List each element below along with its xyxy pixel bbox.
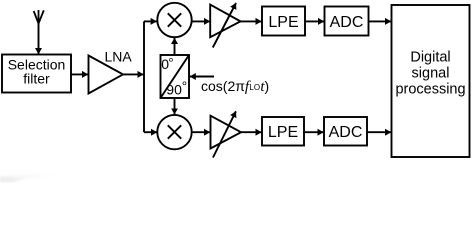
wire LO into phase shifter: [190, 76, 214, 78]
svg-text:filter: filter: [23, 71, 50, 87]
svg-text:signal: signal: [412, 66, 450, 82]
svg-text:LPE: LPE: [268, 124, 298, 141]
wire phase shifter to mixer M1: [174, 38, 176, 55]
antenna: [34, 10, 44, 24]
wire split vertical branch: [143, 21, 145, 132]
svg-text:ADC: ADC: [329, 124, 363, 141]
box LPE1: [262, 7, 305, 36]
wire VGA1 to LPE1: [241, 20, 262, 22]
mixer M1: [157, 3, 191, 37]
phase shifter 0/90: [161, 55, 190, 98]
box ADC1: [325, 7, 369, 36]
wire LNA to split node: [123, 73, 144, 75]
wire LPE2 to ADC2: [304, 131, 324, 133]
wire LPE1 to ADC1: [305, 20, 324, 22]
wire mixer M2 to VGA2: [192, 131, 210, 133]
wire branch to mixer M2: [144, 131, 157, 133]
wire VGA2 to LPE2: [241, 131, 262, 133]
svg-text:LNA: LNA: [105, 49, 133, 65]
wire filter to LNA: [71, 73, 88, 75]
amplifier VGA1: [210, 3, 240, 48]
svg-text:°: °: [182, 79, 187, 94]
wire ADC2 to DSP: [367, 131, 391, 133]
box LPE2: [262, 117, 304, 146]
svg-text:processing: processing: [395, 82, 465, 98]
wire branch to mixer M1: [144, 20, 157, 22]
svg-text:90: 90: [166, 82, 182, 98]
box ADC2: [324, 117, 367, 146]
wire phase shifter to mixer M2: [174, 98, 176, 114]
svg-text:LPE: LPE: [268, 14, 298, 31]
mixer M2: [157, 115, 191, 149]
amplifier LNA: [89, 56, 124, 94]
wire ADC1 to DSP: [369, 20, 392, 22]
wire antenna to selection filter: [38, 24, 40, 55]
svg-text:ADC: ADC: [330, 14, 364, 31]
box Selection filter: [2, 55, 71, 93]
wire mixer M1 to VGA1: [192, 20, 211, 22]
box DSP Digital signal processing: [392, 5, 470, 157]
amplifier VGA2: [211, 111, 242, 157]
svg-text:Digital: Digital: [410, 50, 450, 66]
svg-text:°: °: [168, 55, 173, 70]
